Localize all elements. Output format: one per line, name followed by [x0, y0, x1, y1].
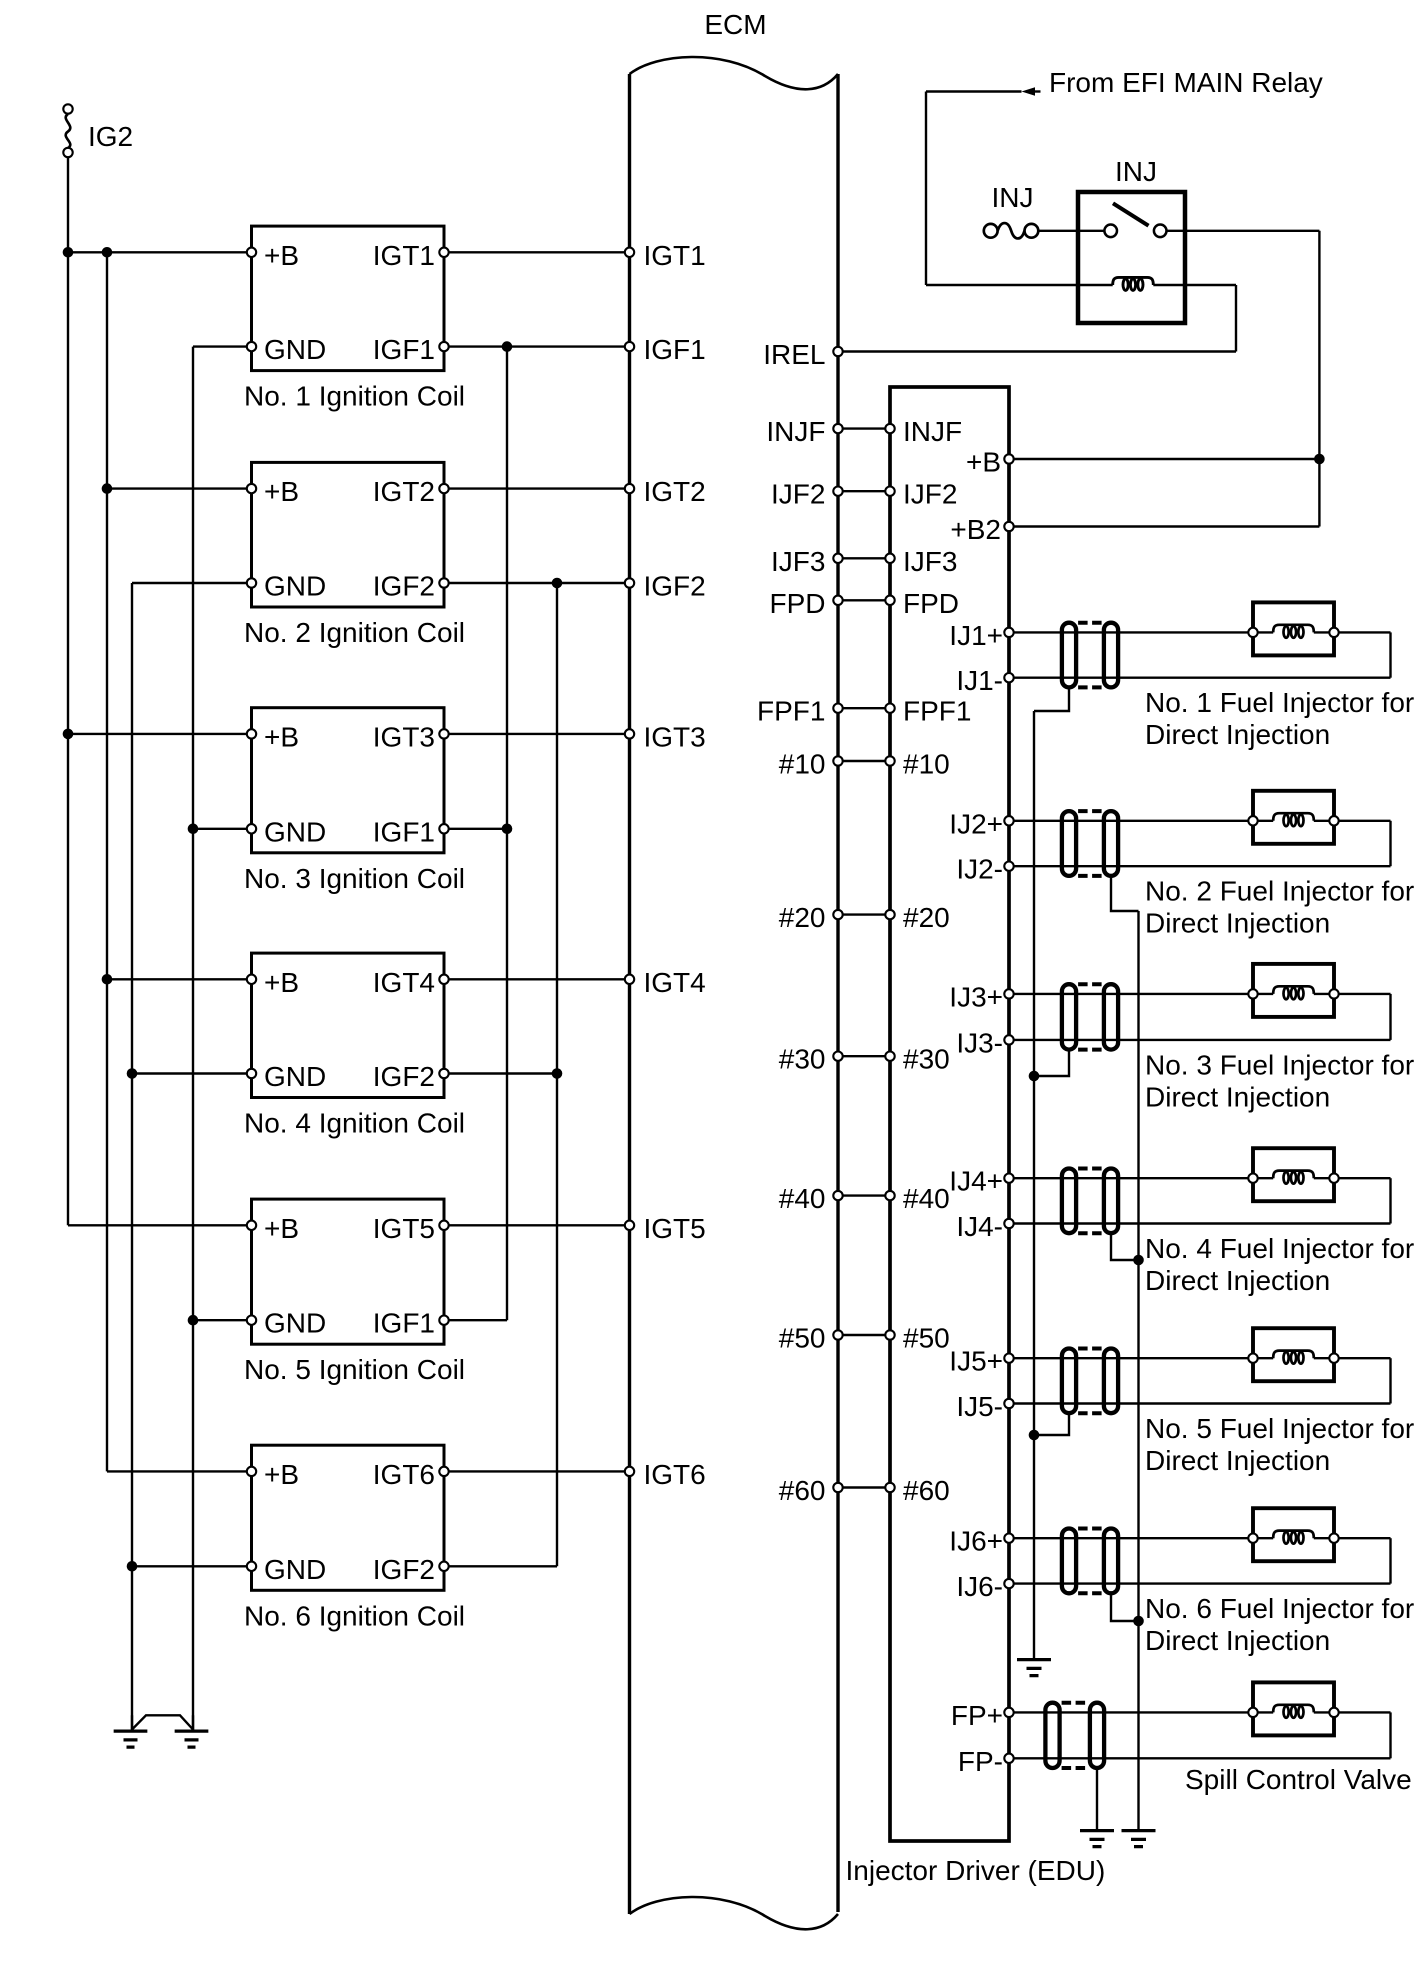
shielded cable symbol injector 4 — [1062, 1169, 1076, 1234]
wire +B feed coil6 — [107, 1470, 252, 1472]
terminal IGT4 coil4 — [439, 975, 448, 984]
terminal GND coil3 — [247, 824, 256, 833]
ECM band right edge — [836, 74, 839, 1912]
wire GND coil2 — [132, 582, 252, 584]
wire injector 1 internal right — [1314, 631, 1334, 633]
terminal IGF1 coil1 — [439, 342, 448, 351]
wire from EFI MAIN relay (vertical + arrow) — [925, 92, 927, 286]
ignition coil box No.5 — [252, 1199, 445, 1344]
relay INJ box — [1078, 192, 1185, 323]
wire injector4 right riser — [1389, 1178, 1391, 1223]
svg-text:#50: #50 — [903, 1323, 950, 1354]
svg-text:IGF2: IGF2 — [373, 1554, 435, 1585]
wire IJ3- return — [1009, 1039, 1391, 1041]
injector 1 solenoid coil — [1273, 625, 1314, 633]
wire #10 ECM to EDU — [838, 760, 890, 762]
wire injector2 out — [1334, 820, 1391, 822]
EDU terminal #30 — [885, 1052, 894, 1061]
svg-text:GND: GND — [264, 816, 326, 847]
wire +B feed coil3 — [68, 733, 252, 735]
svg-text:IJ1+: IJ1+ — [949, 620, 1003, 651]
wire GND coil3 — [193, 828, 252, 830]
wire injector 6 internal right — [1314, 1537, 1334, 1539]
wire injector 1 internal left — [1253, 631, 1273, 633]
ECM top wavy edge — [630, 57, 839, 89]
svg-text:Spill Control Valve: Spill Control Valve — [1185, 1764, 1412, 1795]
wire into relay coil — [926, 284, 1113, 286]
wire FPF1 ECM to EDU — [838, 707, 890, 709]
svg-text:FPF1: FPF1 — [903, 696, 971, 727]
svg-text:IJ6-: IJ6- — [956, 1571, 1003, 1602]
svg-text:IGT2: IGT2 — [644, 476, 706, 507]
junction IGF2 riser / coil2 IGF2 wire — [552, 578, 563, 589]
junction shield drain 5 / left drain bus — [1029, 1430, 1040, 1441]
wire down to IREL level — [1235, 285, 1237, 352]
svg-text:IJF3: IJF3 — [903, 546, 957, 577]
junction shield drain 3 / left drain bus — [1029, 1071, 1040, 1082]
wire IGT6 coil6 to ECM — [444, 1470, 630, 1472]
svg-text:No. 1 Ignition Coil: No. 1 Ignition Coil — [244, 381, 465, 412]
shielded cable symbol injector 5 — [1062, 1349, 1076, 1414]
ignition coil box No.3 — [252, 708, 445, 853]
wire fuse to relay switch — [1038, 230, 1104, 232]
shielded cable symbol injector 6 — [1062, 1529, 1076, 1594]
wire IJ5- return — [1009, 1402, 1391, 1404]
EDU terminal IJ1- — [1004, 673, 1013, 682]
junction GND bus / coil5 GND — [188, 1315, 199, 1326]
EDU terminal +B2 — [1004, 522, 1013, 531]
junction +B bus B / coil1 +B — [102, 247, 113, 258]
wire +B bus A (x=68) — [67, 252, 69, 1225]
svg-text:IGT3: IGT3 — [644, 721, 706, 752]
wire injector1 right riser — [1389, 632, 1391, 677]
wire INJF ECM to EDU — [838, 427, 890, 429]
svg-text:+B: +B — [264, 1213, 299, 1244]
wire +B feed coil4 — [107, 978, 252, 980]
ground (spill valve shield) — [1080, 1831, 1114, 1847]
wire IJ4+ to injector — [1009, 1177, 1253, 1179]
wire spill valve internal left — [1253, 1711, 1273, 1713]
svg-text:IJ4-: IJ4- — [956, 1211, 1003, 1242]
wire shield drain injector 1 — [1034, 689, 1069, 711]
svg-text:IGF1: IGF1 — [373, 816, 435, 847]
junction shield drain 6 / right drain bus — [1133, 1616, 1144, 1627]
terminal GND coil4 — [247, 1069, 256, 1078]
terminal IGF1 coil5 — [439, 1316, 448, 1325]
terminal IGF2 coil4 — [439, 1069, 448, 1078]
injector 4 body — [1253, 1148, 1334, 1201]
svg-text:No. 3 Ignition Coil: No. 3 Ignition Coil — [244, 863, 465, 894]
svg-text:No. 1 Fuel Injector for: No. 1 Fuel Injector for — [1145, 687, 1414, 718]
injector 5 solenoid coil — [1273, 1351, 1314, 1359]
relay switch contacts — [1104, 225, 1117, 238]
ECM terminal IGT6 — [625, 1467, 634, 1476]
wire IGF1 coil5 to riser — [444, 1319, 507, 1321]
wire into right coil ground — [192, 1715, 194, 1729]
injector 3 left pin — [1248, 989, 1257, 998]
wire shield drain injector 3 — [1034, 1051, 1069, 1076]
terminal IGT5 coil5 — [439, 1221, 448, 1230]
injector 4 solenoid coil — [1273, 1171, 1314, 1179]
ECM terminal FPD — [833, 596, 842, 605]
injector 5 body — [1253, 1328, 1334, 1381]
wire shield drain injector 4 — [1111, 1235, 1139, 1260]
terminal +B coil4 — [247, 975, 256, 984]
svg-text:IJF2: IJF2 — [771, 479, 825, 510]
wire #60 ECM to EDU — [838, 1486, 890, 1488]
wire IGT1 coil1 to ECM — [444, 251, 630, 253]
EDU terminal +B — [1004, 454, 1013, 463]
EDU terminal IJF2 — [885, 487, 894, 496]
wire #30 ECM to EDU — [838, 1055, 890, 1057]
spill control valve body — [1253, 1682, 1334, 1735]
wire +B feed coil2 — [107, 487, 252, 489]
junction IGF2 riser / coil4 IGF2 wire — [552, 1068, 563, 1079]
svg-text:+B: +B — [264, 240, 299, 271]
svg-text:Direct Injection: Direct Injection — [1145, 719, 1330, 750]
wire spill valve right riser — [1389, 1712, 1391, 1758]
wire IGF2 coil6 to riser — [444, 1565, 557, 1567]
svg-text:Direct Injection: Direct Injection — [1145, 1265, 1330, 1296]
wire right shield drain bus — [1137, 911, 1139, 1829]
svg-text:IJ6+: IJ6+ — [949, 1526, 1003, 1557]
EDU terminal INJF — [885, 424, 894, 433]
svg-text:#20: #20 — [903, 902, 950, 933]
wire IGT3 coil3 to ECM — [444, 733, 630, 735]
svg-text:#20: #20 — [779, 902, 826, 933]
wire IJ2+ to injector — [1009, 820, 1253, 822]
wire GND bus (coils 1,3,5) x=193 — [192, 347, 194, 1730]
svg-text:Direct Injection: Direct Injection — [1145, 1445, 1330, 1476]
injector 4 right pin — [1329, 1174, 1338, 1183]
EDU terminal #60 — [885, 1483, 894, 1492]
ground (left shield drain bus) — [1017, 1660, 1051, 1676]
svg-text:No. 6 Fuel Injector for: No. 6 Fuel Injector for — [1145, 1593, 1414, 1624]
terminal +B coil6 — [247, 1467, 256, 1476]
injector 6 body — [1253, 1508, 1334, 1561]
EDU terminal IJ2- — [1004, 862, 1013, 871]
svg-text:IJ5-: IJ5- — [956, 1391, 1003, 1422]
wire #40 ECM to EDU — [838, 1194, 890, 1196]
svg-text:#30: #30 — [903, 1044, 950, 1075]
ECM terminal IGF1 — [625, 342, 634, 351]
terminal IGT3 coil3 — [439, 729, 448, 738]
ECM terminal #30 — [833, 1052, 842, 1061]
svg-text:+B2: +B2 — [950, 514, 1001, 545]
junction +B bus B / coil4 +B — [102, 974, 113, 985]
ECM terminal IGF2 — [625, 578, 634, 587]
injector 6 solenoid coil — [1273, 1531, 1314, 1539]
ECM terminal IGT3 — [625, 729, 634, 738]
wire IJ6+ to injector — [1009, 1537, 1253, 1539]
svg-text:IGT1: IGT1 — [644, 240, 706, 271]
terminal IGF2 coil6 — [439, 1562, 448, 1571]
wire injector 3 internal right — [1314, 993, 1334, 995]
svg-text:IGT4: IGT4 — [644, 967, 706, 998]
svg-text:IJ2+: IJ2+ — [949, 808, 1003, 839]
EDU terminal FP- — [1004, 1754, 1013, 1763]
wire injector4 out — [1334, 1177, 1391, 1179]
fuse INJ (fusible link) — [984, 224, 998, 238]
ECM terminal #40 — [833, 1191, 842, 1200]
svg-text:+B: +B — [264, 1459, 299, 1490]
junction +B wire — [1314, 454, 1325, 465]
svg-text:IJ2-: IJ2- — [956, 854, 1003, 885]
svg-text:GND: GND — [264, 1308, 326, 1339]
EDU terminal IJ3- — [1004, 1035, 1013, 1044]
wire injector3 right riser — [1389, 994, 1391, 1040]
svg-text:Injector Driver (EDU): Injector Driver (EDU) — [846, 1855, 1106, 1886]
svg-text:IJ1-: IJ1- — [956, 665, 1003, 696]
EDU terminal IJ5+ — [1004, 1354, 1013, 1363]
wire IGF2 riser x=557 (coils 2,4,6) — [556, 583, 558, 1566]
wire down to +B/+B2 — [1318, 231, 1320, 527]
shielded cable symbol injector 1 — [1062, 623, 1076, 688]
svg-text:IGF2: IGF2 — [373, 1061, 435, 1092]
wire #50 ECM to EDU — [838, 1334, 890, 1336]
svg-text:IJ5+: IJ5+ — [949, 1346, 1003, 1377]
wire injector3 out — [1334, 993, 1391, 995]
injector 6 left pin — [1248, 1534, 1257, 1543]
svg-text:#50: #50 — [779, 1323, 826, 1354]
ignition coil box No.6 — [252, 1445, 445, 1590]
svg-text:FPD: FPD — [770, 588, 826, 619]
svg-text:IGT5: IGT5 — [644, 1213, 706, 1244]
wire IJ1+ to injector — [1009, 631, 1253, 633]
wire IJ1- return — [1009, 677, 1391, 679]
injector 2 right pin — [1329, 816, 1338, 825]
wire spill valve out — [1334, 1711, 1391, 1713]
terminal +B coil5 — [247, 1221, 256, 1230]
EDU terminal #40 — [885, 1191, 894, 1200]
EDU terminal FPF1 — [885, 704, 894, 713]
terminal IGT1 coil1 — [439, 248, 448, 257]
ECM terminal IGT5 — [625, 1221, 634, 1230]
terminal GND coil2 — [247, 578, 256, 587]
IG2 switch symbol — [63, 104, 72, 113]
injector 2 left pin — [1248, 816, 1257, 825]
shielded cable symbol injector 2 — [1062, 811, 1076, 876]
wire #20 ECM to EDU — [838, 913, 890, 915]
wire FPD ECM to EDU — [838, 599, 890, 601]
svg-text:Direct Injection: Direct Injection — [1145, 1625, 1330, 1656]
wire left shield drain bus — [1033, 711, 1035, 1658]
svg-text:No. 5 Ignition Coil: No. 5 Ignition Coil — [244, 1354, 465, 1385]
EDU terminal #10 — [885, 756, 894, 765]
svg-text:IGF2: IGF2 — [373, 571, 435, 602]
EDU terminal IJ4+ — [1004, 1174, 1013, 1183]
svg-text:#60: #60 — [903, 1475, 950, 1506]
wire injector 5 internal right — [1314, 1357, 1334, 1359]
shielded cable symbol injector 3 — [1062, 984, 1076, 1049]
wire IG2 down to +B bus — [67, 158, 69, 253]
terminal +B coil2 — [247, 484, 256, 493]
svg-text:No. 2 Fuel Injector for: No. 2 Fuel Injector for — [1145, 876, 1414, 907]
wire FP- return — [1009, 1757, 1391, 1759]
injector 1 body — [1253, 602, 1334, 655]
svg-text:IJF3: IJF3 — [771, 546, 825, 577]
svg-text:GND: GND — [264, 1554, 326, 1585]
wire IGF1 coil3 to riser — [444, 828, 507, 830]
ground (ignition coils 2,4,6) — [114, 1731, 148, 1747]
injector 5 right pin — [1329, 1354, 1338, 1363]
EDU terminal FP+ — [1004, 1708, 1013, 1717]
svg-text:IGF1: IGF1 — [373, 1308, 435, 1339]
svg-text:Direct Injection: Direct Injection — [1145, 908, 1330, 939]
injector 2 body — [1253, 791, 1334, 844]
svg-text:From EFI MAIN Relay: From EFI MAIN Relay — [1049, 67, 1323, 98]
svg-text:IJ3+: IJ3+ — [949, 981, 1003, 1012]
wire injector 2 internal left — [1253, 820, 1273, 822]
wire spill valve internal right — [1314, 1711, 1334, 1713]
svg-text:GND: GND — [264, 1061, 326, 1092]
EDU terminal IJ6+ — [1004, 1534, 1013, 1543]
svg-text:IJ3-: IJ3- — [956, 1027, 1003, 1058]
wire injector6 out — [1334, 1537, 1391, 1539]
svg-text:INJF: INJF — [903, 416, 962, 447]
wire to ECM IREL — [838, 350, 1236, 352]
terminal +B coil1 — [247, 248, 256, 257]
wire relay coil out — [1153, 284, 1236, 286]
svg-text:IGF1: IGF1 — [644, 334, 706, 365]
wire injector2 right riser — [1389, 821, 1391, 866]
wire injector5 right riser — [1389, 1358, 1391, 1403]
svg-text:IJ4+: IJ4+ — [949, 1166, 1003, 1197]
svg-text:INJ: INJ — [992, 182, 1034, 213]
svg-text:IGT5: IGT5 — [373, 1213, 435, 1244]
wire GND bus (coils 2,4,6) x=132 — [131, 583, 133, 1730]
spill valve solenoid coil — [1273, 1705, 1314, 1713]
svg-text:IREL: IREL — [763, 339, 825, 370]
svg-text:#10: #10 — [779, 749, 826, 780]
EDU terminal #20 — [885, 910, 894, 919]
wire IJ2- return — [1009, 865, 1391, 867]
EDU terminal IJ4- — [1004, 1219, 1013, 1228]
ECM terminal FPF1 — [833, 704, 842, 713]
svg-text:ECM: ECM — [704, 9, 766, 40]
svg-text:FPD: FPD — [903, 588, 959, 619]
injector 3 solenoid coil — [1273, 986, 1314, 994]
svg-text:Direct Injection: Direct Injection — [1145, 1081, 1330, 1112]
ECM bottom wavy edge — [630, 1897, 839, 1929]
svg-text:#10: #10 — [903, 749, 950, 780]
injector 1 right pin — [1329, 628, 1338, 637]
wire injector1 out — [1334, 631, 1391, 633]
ECM terminal IJF3 — [833, 554, 842, 563]
EDU terminal IJF3 — [885, 554, 894, 563]
EDU terminal #50 — [885, 1330, 894, 1339]
svg-text:+B: +B — [966, 447, 1001, 478]
svg-text:INJF: INJF — [766, 416, 825, 447]
svg-text:IGT6: IGT6 — [373, 1459, 435, 1490]
svg-text:IGT1: IGT1 — [373, 240, 435, 271]
wire IGF2 coil2 to ECM — [444, 582, 630, 584]
relay switch blade — [1113, 203, 1149, 225]
svg-text:No. 5 Fuel Injector for: No. 5 Fuel Injector for — [1145, 1413, 1414, 1444]
ECM terminal IGT2 — [625, 484, 634, 493]
wire IGT5 coil5 to ECM — [444, 1224, 630, 1226]
svg-text:INJ: INJ — [1115, 156, 1157, 187]
ECM terminal INJF — [833, 424, 842, 433]
junction IGF1 riser / coil1 IGF1 wire — [502, 341, 513, 352]
svg-text:FP-: FP- — [958, 1746, 1003, 1777]
wire IJ4- return — [1009, 1222, 1391, 1224]
junction +B bus A / coil3 +B — [63, 729, 74, 740]
ECM terminal IREL — [833, 347, 842, 356]
terminal IGF1 coil3 — [439, 824, 448, 833]
injector 4 left pin — [1248, 1174, 1257, 1183]
terminal GND coil1 — [247, 342, 256, 351]
wire +B2 to EDU — [1009, 525, 1319, 527]
svg-text:+B: +B — [264, 721, 299, 752]
EDU terminal FPD — [885, 596, 894, 605]
jumper between coil grounds — [132, 1715, 193, 1729]
wire +B feed coil1 — [68, 251, 252, 253]
wire shield drain injector 2 — [1111, 878, 1139, 911]
svg-text:No. 6 Ignition Coil: No. 6 Ignition Coil — [244, 1600, 465, 1631]
svg-text:+B: +B — [264, 967, 299, 998]
injector 2 solenoid coil — [1273, 813, 1314, 821]
terminal IGT2 coil2 — [439, 484, 448, 493]
svg-text:No. 4 Fuel Injector for: No. 4 Fuel Injector for — [1145, 1233, 1414, 1264]
ECM terminal IGT4 — [625, 975, 634, 984]
junction +B bus B / coil2 +B — [102, 483, 113, 494]
svg-text:GND: GND — [264, 571, 326, 602]
ECM terminal IGT1 — [625, 248, 634, 257]
wire injector 3 internal left — [1253, 993, 1273, 995]
ignition coil box No.4 — [252, 953, 445, 1097]
arrowhead pointing left — [1022, 87, 1036, 96]
wire IJ3+ to injector — [1009, 993, 1253, 995]
svg-text:IGT6: IGT6 — [644, 1459, 706, 1490]
wire shield drain spill valve — [1096, 1770, 1098, 1829]
ignition coil box No.1 — [252, 226, 445, 371]
wire shield drain injector 6 — [1111, 1595, 1139, 1621]
relay coil — [1113, 277, 1154, 285]
wire IJF3 ECM to EDU — [838, 557, 890, 559]
wire injector 6 internal left — [1253, 1537, 1273, 1539]
injector 1 left pin — [1248, 628, 1257, 637]
junction GND bus / coil3 GND — [188, 824, 199, 835]
wire GND coil1 — [193, 345, 252, 347]
wire injector5 out — [1334, 1357, 1391, 1359]
wire GND coil4 — [132, 1072, 252, 1074]
svg-text:#40: #40 — [903, 1183, 950, 1214]
Injector Driver (EDU) box — [890, 387, 1009, 1841]
svg-text:GND: GND — [264, 334, 326, 365]
wire shield drain injector 5 — [1034, 1415, 1069, 1435]
junction IGF1 riser / coil3 IGF1 wire — [502, 824, 513, 835]
EDU terminal IJ2+ — [1004, 816, 1013, 825]
terminal IGF2 coil2 — [439, 578, 448, 587]
injector 5 left pin — [1248, 1354, 1257, 1363]
junction GND bus / coil4 GND — [127, 1068, 138, 1079]
svg-text:No. 4 Ignition Coil: No. 4 Ignition Coil — [244, 1108, 465, 1139]
EDU terminal IJ3+ — [1004, 989, 1013, 998]
wire IJ5+ to injector — [1009, 1357, 1253, 1359]
wire +B to EDU — [1009, 458, 1319, 460]
svg-text:IGF2: IGF2 — [644, 571, 706, 602]
ignition coil box No.2 — [252, 462, 445, 607]
wire injector 5 internal left — [1253, 1357, 1273, 1359]
wire IGF1 coil1 to ECM — [444, 345, 630, 347]
wire IJ6- return — [1009, 1582, 1391, 1584]
junction +B bus A / coil1 +B — [63, 247, 74, 258]
wire IGT2 coil2 to ECM — [444, 487, 630, 489]
wire into left coil ground — [131, 1715, 133, 1729]
svg-text:#60: #60 — [779, 1475, 826, 1506]
ECM terminal IJF2 — [833, 487, 842, 496]
